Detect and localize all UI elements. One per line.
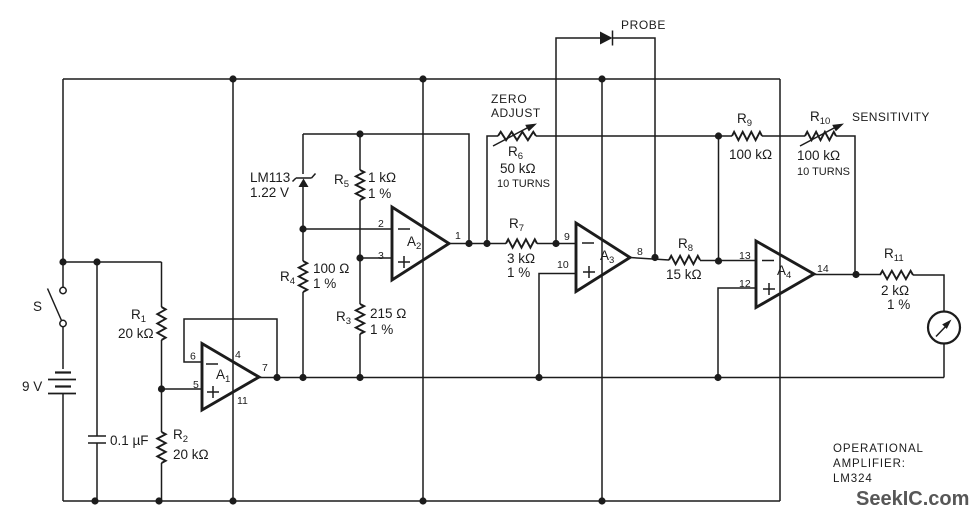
op-amp A2 xyxy=(392,207,449,280)
wire A3 pin10 riser from reference line xyxy=(539,274,576,378)
wire top V+ rail xyxy=(63,78,780,80)
svg-text:1 %: 1 % xyxy=(368,186,391,201)
resistor R7 xyxy=(506,239,576,247)
svg-text:AMPLIFIER:: AMPLIFIER: xyxy=(833,458,906,470)
svg-text:LM324: LM324 xyxy=(833,473,873,485)
svg-text:11: 11 xyxy=(237,395,248,407)
wire A1 supply vertical pin4/pin11 xyxy=(232,79,234,501)
wire R10 down to A4 output xyxy=(836,136,855,275)
wire A1 pin5 input xyxy=(162,388,203,390)
svg-text:1 %: 1 % xyxy=(370,322,393,337)
battery BT1 9V xyxy=(48,373,76,394)
svg-text:50 kΩ: 50 kΩ xyxy=(500,161,536,176)
resistor R2 xyxy=(157,389,165,501)
wire bottom ground rail xyxy=(63,500,780,502)
resistor R5 xyxy=(356,134,364,200)
svg-text:1: 1 xyxy=(455,230,461,242)
svg-text:5: 5 xyxy=(193,379,199,391)
svg-text:13: 13 xyxy=(739,250,751,262)
wire A3 output xyxy=(630,258,669,261)
svg-text:3: 3 xyxy=(378,250,384,262)
svg-text:15 kΩ: 15 kΩ xyxy=(666,267,702,282)
svg-text:1 %: 1 % xyxy=(507,265,530,280)
note OPERATIONAL AMPLIFIER: LM324 xyxy=(833,443,924,485)
wire riser A2 output to R6 xyxy=(487,136,498,244)
svg-text:2 kΩ: 2 kΩ xyxy=(881,283,909,298)
op-amp A1 xyxy=(202,344,259,411)
resistor R4 xyxy=(299,261,307,378)
wire battery to ground rail xyxy=(62,394,64,501)
svg-text:SENSITIVITY: SENSITIVITY xyxy=(852,110,930,124)
svg-text:10 TURNS: 10 TURNS xyxy=(497,178,550,190)
wire A2 feedback sub-rail xyxy=(303,134,469,243)
resistor R3 xyxy=(356,304,364,378)
svg-text:9: 9 xyxy=(564,231,570,243)
label ZERO ADJUST xyxy=(491,92,541,120)
svg-text:100 Ω: 100 Ω xyxy=(313,261,349,276)
diode D1 probe xyxy=(600,31,613,46)
wire A4 output xyxy=(814,274,880,276)
wire A2 pin3 input xyxy=(360,257,392,259)
svg-text:2: 2 xyxy=(378,218,384,230)
svg-text:1.22 V: 1.22 V xyxy=(250,185,289,200)
zener D2 LM113 xyxy=(293,134,316,187)
wire A4 supply vertical and right frame xyxy=(779,79,781,501)
resistor R8 xyxy=(669,256,756,264)
svg-text:100 kΩ: 100 kΩ xyxy=(729,147,772,162)
wire left branch from top rail down to switch xyxy=(62,79,64,287)
svg-text:SeekIC.com: SeekIC.com xyxy=(856,488,969,510)
svg-text:1 kΩ: 1 kΩ xyxy=(368,170,396,185)
wire A1 feedback pin6 to pin7 output xyxy=(184,319,277,378)
wire R6 to R9 node xyxy=(536,135,732,137)
wire zener anode to A2 pin2 node xyxy=(302,187,304,261)
wire riser R9 node to A4 pin13 xyxy=(718,136,720,261)
wire meter to reference line xyxy=(943,344,945,378)
wire A4 pin12 riser from reference line xyxy=(718,288,756,378)
svg-text:100 kΩ: 100 kΩ xyxy=(797,148,840,163)
switch S xyxy=(48,287,67,326)
svg-text:S: S xyxy=(33,299,42,314)
svg-text:10 TURNS: 10 TURNS xyxy=(797,166,850,178)
capacitor C1 xyxy=(88,262,106,501)
op-amp A3 xyxy=(576,223,630,292)
wire A1 output reference line to meter xyxy=(259,377,944,379)
resistor R9 xyxy=(732,132,805,140)
meter M1 xyxy=(928,312,960,344)
svg-text:20 kΩ: 20 kΩ xyxy=(118,326,154,341)
resistor R1 xyxy=(157,262,165,389)
svg-text:14: 14 xyxy=(817,263,829,275)
wire probe loop left to A3 pin9 xyxy=(556,38,600,244)
potentiometer R10 sensitivity xyxy=(800,124,844,147)
potentiometer R6 zero adjust xyxy=(493,124,537,147)
svg-text:1 %: 1 % xyxy=(313,276,336,291)
wire switch to battery xyxy=(62,327,64,369)
svg-text:1 %: 1 % xyxy=(887,297,910,312)
svg-text:215 Ω: 215 Ω xyxy=(370,306,406,321)
wire A3 supply vertical xyxy=(601,79,603,501)
svg-text:7: 7 xyxy=(262,362,268,374)
wire battery node to R1 and C1 xyxy=(63,261,162,263)
svg-text:9 V: 9 V xyxy=(22,379,42,394)
svg-text:8: 8 xyxy=(637,246,643,258)
svg-text:ADJUST: ADJUST xyxy=(491,106,541,120)
svg-text:10: 10 xyxy=(557,259,569,271)
wire A2 supply vertical xyxy=(422,79,424,501)
svg-text:20 kΩ: 20 kΩ xyxy=(173,447,209,462)
svg-text:6: 6 xyxy=(190,351,196,363)
op-amp A4 xyxy=(756,241,814,308)
svg-text:ZERO: ZERO xyxy=(491,92,528,106)
svg-text:PROBE: PROBE xyxy=(621,18,666,32)
svg-text:4: 4 xyxy=(235,349,241,361)
svg-text:LM113: LM113 xyxy=(250,170,290,185)
svg-text:3 kΩ: 3 kΩ xyxy=(507,251,535,266)
wire R5 to R3 xyxy=(359,200,361,304)
wire A2 pin2 input xyxy=(303,228,392,230)
wire probe loop right to A3 output xyxy=(613,38,656,258)
svg-text:OPERATIONAL: OPERATIONAL xyxy=(833,443,924,455)
wire A2 output xyxy=(449,243,506,245)
svg-text:12: 12 xyxy=(739,278,751,290)
svg-text:0.1 µF: 0.1 µF xyxy=(110,433,149,448)
resistor R11 xyxy=(880,271,944,312)
